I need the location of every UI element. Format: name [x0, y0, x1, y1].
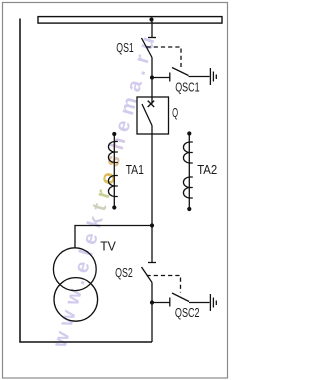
circuit breaker Q [137, 97, 169, 134]
interlock link QS1-QSC1 [147, 47, 182, 67]
wire cell boundary [20, 19, 152, 343]
wire QS1 to Q [151, 58, 153, 98]
ground QSC1 [210, 68, 216, 85]
current transformer TA1 [108, 132, 117, 210]
wire QSC2 to ground [189, 302, 210, 304]
busbar [38, 17, 222, 24]
node QSC1 tap [150, 75, 154, 79]
node TV branch [150, 223, 154, 227]
node QSC2 tap [150, 300, 154, 304]
wire QS2 down [151, 283, 153, 343]
svg-text:Q: Q [172, 106, 178, 120]
node busbar tap [149, 17, 153, 21]
wire busbar to QS1 [151, 22, 153, 38]
wire TV branch [75, 226, 152, 249]
ground QSC2 [210, 294, 216, 311]
grounding switch QSC1 [170, 68, 189, 82]
svg-text:TA1: TA1 [126, 163, 144, 177]
voltage transformer TV [53, 248, 97, 321]
wire to QSC2 [152, 302, 170, 304]
interlock link QS2-QSC2 [147, 276, 181, 293]
grounding switch QSC2 [170, 293, 189, 307]
disconnector QS2 [142, 263, 157, 283]
current transformer TA2 [183, 131, 192, 211]
svg-text:QS1: QS1 [116, 41, 134, 55]
svg-text:QSC1: QSC1 [175, 80, 199, 94]
svg-text:TV: TV [100, 240, 116, 254]
svg-text:QSC2: QSC2 [175, 306, 200, 320]
svg-text:QS2: QS2 [115, 266, 133, 280]
svg-text:TA2: TA2 [197, 163, 217, 177]
disconnector QS1 [142, 38, 157, 58]
wire QSC1 to ground [189, 76, 210, 78]
wire Q to QS2 [151, 126, 153, 263]
wire to QSC1 [152, 77, 170, 79]
